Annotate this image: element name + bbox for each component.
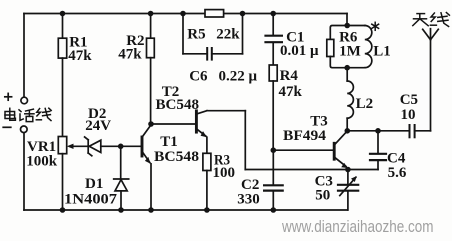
- glyph 天: [413, 14, 428, 26]
- label D2 value: [85, 106, 111, 134]
- svg-text:100: 100: [213, 165, 236, 181]
- wire T3 collector line to C5: [347, 130, 409, 132]
- svg-text:1M: 1M: [339, 43, 361, 59]
- node junction dot T3 base node: [271, 147, 277, 153]
- svg-text:1N4007: 1N4007: [64, 192, 118, 208]
- variable capacitor C3: [338, 170, 358, 211]
- svg-text:5.6: 5.6: [388, 165, 407, 181]
- label L1: [373, 43, 391, 59]
- svg-text:L1: L1: [373, 43, 391, 59]
- svg-text:D1: D1: [85, 176, 103, 192]
- inductor L2: [347, 68, 353, 131]
- svg-text:10: 10: [401, 107, 416, 123]
- glyph 线: [430, 13, 449, 27]
- transistor T2: [151, 111, 207, 138]
- resistor R2: [147, 14, 155, 125]
- node junction dot R3 bottom rail: [204, 207, 210, 213]
- label C1 value: [280, 29, 319, 59]
- svg-text:50: 50: [315, 188, 330, 204]
- label R5 value: [187, 26, 240, 42]
- capacitor C1: [266, 14, 282, 66]
- node junction dot L2 bottom / T3 collector: [345, 128, 351, 134]
- node junction dot R2 top: [148, 11, 154, 17]
- label R1 value: [68, 35, 92, 64]
- label VR1 value: [26, 139, 58, 169]
- node junction dot R5/C6 right: [240, 11, 246, 17]
- node junction dot R5/C6 left: [180, 11, 186, 17]
- label C4 value: [387, 150, 407, 181]
- svg-text:BC548: BC548: [154, 149, 199, 165]
- node junction dot R1 top: [60, 11, 66, 17]
- label R3 value: [213, 153, 236, 182]
- antenna symbol: [423, 29, 439, 40]
- zener diode D2: [85, 137, 142, 156]
- node junction dot C2 bottom rail: [271, 207, 277, 213]
- label T1: [154, 134, 199, 165]
- svg-text:24V: 24V: [85, 118, 111, 134]
- glyph 线: [36, 108, 51, 120]
- resistor R1: [58, 14, 66, 137]
- label * hot end mark: [372, 22, 379, 30]
- capacitor C2: [264, 150, 283, 210]
- glyph 电: [5, 108, 15, 120]
- svg-text:0.01 μ: 0.01 μ: [280, 43, 319, 59]
- svg-text:R4: R4: [280, 68, 299, 84]
- node junction dot C1 top: [270, 11, 276, 17]
- wire left vertical from rail to + terminal: [23, 14, 25, 98]
- node junction dot tank bottom: [344, 65, 350, 71]
- label D1 value: [64, 176, 118, 208]
- glyph 话: [19, 109, 34, 121]
- label C6 value: [189, 69, 257, 85]
- resistor R6 (parallel loop with L1): [327, 26, 365, 68]
- svg-text:0.22 μ: 0.22 μ: [219, 69, 258, 85]
- node junction dot D1 bottom rail: [118, 207, 124, 213]
- wire rail corner down to tank top: [346, 14, 348, 26]
- node junction dot C4 top: [375, 128, 381, 134]
- svg-text:22k: 22k: [216, 26, 240, 42]
- svg-text:BF494: BF494: [283, 128, 327, 144]
- label C2 value: [237, 177, 260, 207]
- svg-text:330: 330: [237, 191, 260, 207]
- wire top supply rail right segment: [224, 13, 347, 15]
- resistor R5 (in series with rail): [205, 10, 224, 17]
- wire T2 collector to T3 emitter node: [207, 111, 348, 170]
- svg-text:T1: T1: [160, 134, 178, 150]
- capacitor C6 (parallel with R5): [183, 14, 243, 60]
- wire antenna lead: [430, 40, 432, 131]
- label R6 value: [339, 30, 361, 60]
- resistor R4: [269, 65, 277, 150]
- svg-text:47k: 47k: [279, 84, 303, 100]
- label T3: [283, 113, 328, 144]
- wire left vertical from - terminal to bottom rail: [23, 133, 25, 210]
- diode D1: [114, 146, 129, 210]
- capacitor C5: [410, 125, 431, 137]
- node junction dot R2 bottom / T1 collector / T2 base: [148, 121, 154, 127]
- label 电话线 (telephone line) hand-drawn glyphs: [5, 108, 51, 121]
- svg-text:L2: L2: [356, 96, 374, 112]
- label R4 value: [279, 68, 303, 100]
- transistor T3: [273, 131, 347, 168]
- label T2: [156, 84, 200, 113]
- svg-text:BC548: BC548: [156, 97, 200, 113]
- svg-text:C5: C5: [400, 92, 418, 108]
- capacitor C4: [348, 131, 386, 170]
- resistor R3: [203, 137, 211, 210]
- svg-text:100k: 100k: [26, 153, 58, 169]
- wire bottom ground rail: [24, 209, 348, 211]
- svg-text:www.dianziaihaozhe.com: www.dianziaihaozhe.com: [281, 217, 433, 236]
- node junction dot T3 emitter node: [345, 167, 351, 173]
- label L2: [356, 96, 374, 112]
- label watermark www.dianziaihaozhe.com: [281, 217, 433, 236]
- node + terminal circle: [21, 97, 28, 104]
- inductor L1: [365, 26, 372, 68]
- svg-text:47k: 47k: [118, 47, 142, 63]
- node junction dot tank top: [344, 23, 350, 29]
- node junction dot D1 top: [118, 144, 124, 150]
- label - sign: [3, 126, 11, 128]
- label + sign: [5, 93, 12, 100]
- svg-text:C4: C4: [387, 150, 406, 166]
- node junction dot T1 emitter rail: [148, 207, 154, 213]
- label C5 value: [400, 92, 418, 123]
- svg-text:R5: R5: [187, 26, 205, 42]
- label C3 value: [315, 173, 333, 203]
- svg-text:C6: C6: [189, 69, 208, 85]
- svg-text:47k: 47k: [68, 48, 92, 64]
- wire top supply rail left segment: [24, 13, 205, 15]
- potentiometer VR1: [58, 137, 88, 211]
- node - terminal circle: [21, 126, 28, 133]
- svg-text:T3: T3: [310, 113, 328, 129]
- label R2 value: [118, 33, 144, 63]
- node junction dot VR1 bottom rail: [60, 207, 66, 213]
- transistor T1: [142, 125, 151, 210]
- label 天线 (antenna) hand-drawn glyphs: [413, 13, 450, 27]
